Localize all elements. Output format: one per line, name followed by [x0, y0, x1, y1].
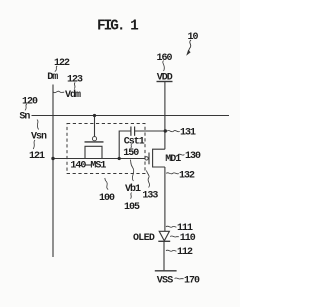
- svg-text:MD1: MD1: [165, 154, 181, 165]
- svg-text:Vb1: Vb1: [125, 183, 141, 195]
- wire MD1 drain to OLED anode: [164, 167, 166, 231]
- transistor MS1: [85, 137, 104, 159]
- leader tilde 132: [166, 173, 179, 174]
- node junction dot on Sn at MS1 gate: [93, 114, 96, 117]
- svg-text:132: 132: [179, 170, 195, 181]
- svg-text:105: 105: [124, 202, 140, 213]
- svg-text:Vdm: Vdm: [65, 89, 81, 101]
- leader squiggle 133 to MD1 gate: [146, 171, 149, 188]
- leader squiggle 100 to box: [105, 178, 108, 190]
- wire Sn scan line horizontal: [32, 115, 230, 117]
- wire VDD rail vertical: [164, 82, 166, 150]
- svg-text:122: 122: [54, 58, 70, 69]
- svg-text:VSS: VSS: [157, 275, 174, 286]
- svg-text:140—MS1: 140—MS1: [70, 160, 106, 171]
- VDD terminal bar: [157, 81, 173, 83]
- leader tilde 112: [166, 250, 176, 251]
- svg-text:Cst1: Cst1: [124, 136, 145, 147]
- svg-text:FIG. 1: FIG. 1: [97, 19, 139, 35]
- leader tilde 110: [170, 236, 179, 237]
- leader squiggle 122 to Dm: [55, 66, 57, 72]
- leader squiggle Sn line to Vsn: [37, 120, 39, 130]
- svg-text:VDD: VDD: [157, 72, 173, 83]
- svg-text:110: 110: [180, 233, 196, 244]
- svg-text:130: 130: [185, 151, 201, 162]
- svg-text:123: 123: [67, 74, 83, 85]
- svg-text:OLED: OLED: [133, 233, 155, 244]
- leader squiggle Cst1 to 150: [130, 144, 133, 148]
- node junction dot capacitor bottom: [118, 157, 121, 160]
- leader tilde MD1 to 130: [178, 154, 184, 155]
- svg-text:Vsn: Vsn: [31, 132, 47, 143]
- svg-text:100: 100: [99, 193, 115, 204]
- VSS terminal bar: [155, 270, 177, 272]
- svg-text:Sn: Sn: [19, 112, 30, 123]
- wire MS1 gate lead: [94, 116, 96, 137]
- OLED diode symbol: [158, 231, 170, 241]
- node 131 junction dot: [164, 129, 167, 132]
- leader squiggle 160 to VDD: [163, 61, 165, 72]
- leader squiggle 123 to Vdm: [73, 83, 76, 89]
- leader squiggle Vb1 to wire: [130, 160, 134, 181]
- wire MS1 source to gate of MD1: [53, 158, 145, 160]
- svg-text:120: 120: [22, 96, 38, 107]
- svg-text:133: 133: [142, 191, 158, 202]
- leader squiggle 120 to Sn: [25, 104, 27, 110]
- leader squiggle Vb1 to 105: [131, 193, 132, 199]
- svg-text:150: 150: [123, 148, 139, 159]
- svg-text:112: 112: [177, 247, 193, 258]
- leader squiggle Vsn to 121: [33, 140, 35, 149]
- svg-text:121: 121: [29, 151, 45, 162]
- transistor MD1: [145, 149, 165, 167]
- wire capacitor right plate to node 131: [135, 130, 166, 132]
- leader tilde node 131: [167, 130, 180, 131]
- leader tilde VSS to 170: [175, 278, 184, 279]
- leader tilde 111: [166, 226, 176, 227]
- svg-text:10: 10: [188, 32, 199, 43]
- wire Dm data line vertical: [52, 85, 54, 258]
- node junction dot Dm to MS1 source: [51, 157, 54, 160]
- svg-text:160: 160: [157, 53, 173, 64]
- svg-text:Dm: Dm: [47, 72, 58, 83]
- label 10 leader arrow: [189, 40, 191, 51]
- svg-text:131: 131: [180, 127, 196, 138]
- wire capacitor top to node 131: [119, 131, 131, 159]
- wire OLED cathode to VSS: [163, 241, 165, 270]
- capacitor Cst1 plates: [131, 127, 135, 136]
- svg-text:170: 170: [184, 275, 200, 286]
- leader tilde Dm line to Vdm: [53, 91, 64, 93]
- dashed box 100 pixel circuit: [67, 124, 145, 174]
